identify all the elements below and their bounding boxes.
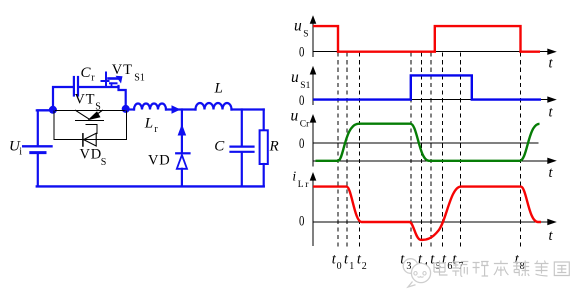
svg-text:t: t [549,228,554,244]
svg-text:S: S [303,29,308,39]
node: left junction dot [49,106,57,114]
watermark logo [403,259,430,287]
wire: Cr to VT_S1 [79,86,119,88]
transistor VT_S right diagonal [91,110,103,119]
waveform uCr (green) [316,124,540,161]
svg-text:R: R [269,139,279,155]
svg-text:2: 2 [362,261,367,272]
transistor VT_S1 (blue mosfet glyph) [102,73,123,87]
waveform uS1 (blue) [313,75,541,99]
svg-text:t: t [549,165,554,181]
node: right junction dot [122,105,130,113]
capacitor Cr right plate [77,77,79,96]
resistor R bottom lead [263,164,265,186]
capacitor C branch wire top [241,110,243,146]
svg-text:i: i [19,147,22,158]
svg-text:L: L [144,116,153,132]
wire: left node to battery (short left stub) [37,109,52,111]
svg-text:S: S [101,157,107,168]
waveform uS (red) [313,26,540,52]
svg-text:1: 1 [349,261,354,272]
axis arrow up plot4 [310,172,317,181]
capacitor C branch wire bottom [241,153,243,186]
dashed time lines t0..t8 [338,53,520,251]
svg-text:L: L [214,81,223,97]
wire: VT_S1 drain step down to right node [119,86,126,106]
svg-text:S1: S1 [300,81,310,91]
inductor L [196,103,232,109]
wire: left node up to top rail [53,87,73,108]
svg-text:u: u [291,108,299,125]
svg-text:u: u [291,69,299,86]
svg-text:S: S [95,102,101,113]
svg-text:VD: VD [80,147,103,163]
waveform iLr (red) [313,187,541,240]
transistor VT_S emitter arrow [88,111,101,120]
axis arrow up plot2 [310,66,317,75]
wire: L to output [232,108,264,110]
current arrow on wire [172,105,181,114]
svg-text:u: u [294,18,302,35]
svg-text:VD: VD [148,153,171,169]
svg-text:VT: VT [112,62,133,78]
wire: right node to Lr [126,108,134,110]
svg-text:0: 0 [299,214,304,230]
svg-text:0: 0 [299,44,304,60]
svg-text:Cr: Cr [300,120,310,130]
svg-text:t: t [549,56,554,72]
diode VD cathode bar [176,152,189,154]
diode VD current arrow (up) [178,124,187,136]
svg-text:C: C [214,138,225,154]
resistor R top lead [263,110,265,131]
svg-text:r: r [91,72,95,83]
svg-text:VT: VT [74,92,95,108]
diode VD bottom lead [181,169,183,187]
axis arrow right plot1 [547,49,557,55]
transistor VT_S gate lead bracket [86,124,97,133]
diode VD triangle [177,155,187,169]
diode VD_S cathode bar [82,134,84,146]
battery U_i long plate [23,145,51,147]
transistor VT_S gate bar [76,119,104,121]
axis arrow up plot1 [310,15,317,24]
axis arrow right plot3 [547,158,557,164]
transistor VT_S rail (black) [56,109,127,111]
svg-text:t: t [549,104,554,120]
wire: Lr to VD node [166,108,196,110]
diode VD_S triangle [84,133,97,146]
svg-text:r: r [154,124,158,135]
svg-text:3: 3 [406,261,411,272]
diode VD_S loop (black) [54,111,127,140]
svg-text:0: 0 [299,93,304,109]
svg-text:i: i [292,169,296,184]
capacitor Cr left plate [73,77,75,96]
svg-text:0: 0 [299,136,304,152]
wire: battery top to left node [38,110,50,145]
time labels t0..t8 [332,252,520,268]
capacitor C top plate [231,146,254,148]
svg-text:C: C [81,65,92,81]
axis arrow right plot4 [547,219,557,225]
svg-text:6: 6 [447,261,452,272]
battery U_i short plate [31,151,45,154]
wire: battery bottom lead [37,154,39,187]
svg-text:S1: S1 [134,73,145,84]
capacitor C bottom plate [231,151,254,153]
axis plot4 iLr [313,174,548,246]
wire: bottom rail [37,185,264,187]
diode VD branch wire [181,110,183,153]
svg-text:Lr: Lr [298,180,310,190]
resistor R body [260,130,268,164]
inductor Lr [134,104,166,110]
axis plot3 uCr [313,116,548,167]
watermark text (stylized CJK strokes) [434,261,569,277]
transistor VT_S left diagonal [76,110,90,119]
axis plot2 uS1 [313,68,548,105]
axis arrow up plot3 [310,114,317,123]
axis plot1 uS [313,17,548,57]
svg-text:0: 0 [337,261,342,272]
axis arrow right plot2 [547,96,557,102]
